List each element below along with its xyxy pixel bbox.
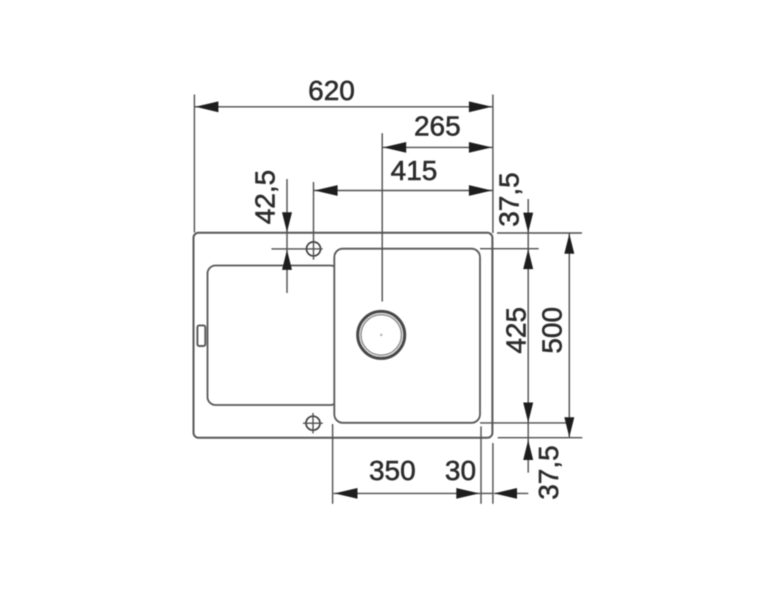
svg-text:415: 415 — [391, 155, 438, 186]
svg-text:425: 425 — [500, 307, 531, 354]
svg-text:350: 350 — [369, 455, 416, 486]
svg-text:265: 265 — [414, 111, 461, 142]
svg-text:42,5: 42,5 — [250, 170, 281, 225]
svg-text:37,5: 37,5 — [533, 445, 564, 500]
svg-text:37,5: 37,5 — [494, 172, 525, 227]
svg-text:620: 620 — [308, 75, 355, 106]
svg-text:500: 500 — [537, 307, 568, 354]
svg-text:30: 30 — [445, 455, 476, 486]
